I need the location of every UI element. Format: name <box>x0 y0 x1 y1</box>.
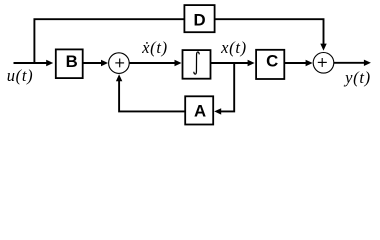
block C <box>256 50 284 79</box>
wire: input line u(t) to B <box>14 60 54 66</box>
wire: x(t) branch down to A <box>214 63 234 115</box>
block A <box>185 96 213 124</box>
wire: A to summing junction 1 (up arrow) <box>116 74 185 111</box>
svg-text:D: D <box>194 11 206 30</box>
summing junction 1 <box>109 53 130 74</box>
wire: output y(t) <box>334 60 371 66</box>
svg-text:A: A <box>194 102 206 121</box>
node: branch above u(t) input <box>34 19 184 63</box>
integrator block <box>183 50 211 79</box>
svg-text:ẋ(t): ẋ(t) <box>141 38 168 57</box>
wire: D to summing junction 2 (down arrow) <box>215 19 327 50</box>
wire: B to summing junction 1 <box>83 60 108 66</box>
summing junction 2 <box>313 53 334 74</box>
svg-text:B: B <box>66 52 78 71</box>
svg-text:y(t): y(t) <box>343 68 371 87</box>
svg-text:u(t): u(t) <box>7 66 34 85</box>
wire: C to summing junction 2 <box>284 60 312 66</box>
svg-text:x(t): x(t) <box>220 38 247 57</box>
svg-text:C: C <box>266 51 278 70</box>
block B <box>56 49 83 78</box>
wire: summing junction 1 to integrator, label xdot(t) <box>129 60 181 66</box>
wire: integrator to C, label x(t) <box>211 60 255 66</box>
block D <box>184 5 214 32</box>
